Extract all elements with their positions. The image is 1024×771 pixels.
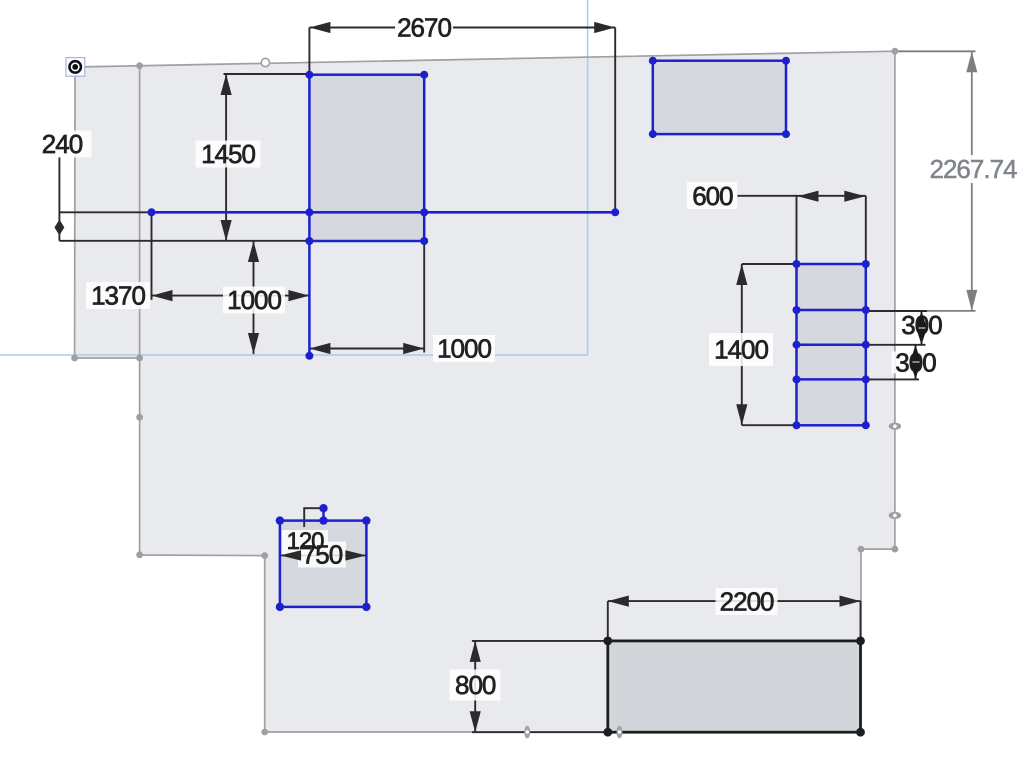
arrowhead 750 right — [345, 550, 366, 560]
dimension 2267.74 gray line — [971, 51, 973, 311]
svg-text:2670: 2670 — [397, 13, 451, 43]
dimension 300 lower line and extensions — [866, 345, 919, 380]
svg-text:600: 600 — [692, 181, 733, 211]
svg-text:1000: 1000 — [437, 334, 491, 364]
arrowhead 1450 top — [221, 74, 232, 95]
room outline polygon stroke — [75, 51, 895, 732]
dimension 1000 vertical line — [253, 241, 255, 354]
arrowhead 300 lower top (over text) — [910, 345, 920, 362]
right stack rectangle blue — [797, 264, 866, 425]
stub line blue below big rectangle — [308, 241, 311, 356]
dimension 1000 horizontal extension line — [423, 241, 425, 353]
top-right rectangle corners — [649, 57, 657, 65]
stack divider 3 — [797, 378, 866, 381]
blue vertex dots — [148, 57, 870, 611]
arrowhead 600 left — [798, 191, 819, 202]
label background 2200 — [716, 588, 778, 615]
arrowhead 1400 top — [736, 264, 747, 285]
label background 1450 — [196, 141, 261, 168]
rectangle fill big top-center — [309, 75, 424, 241]
svg-text:2200: 2200 — [720, 586, 774, 616]
label background 1000 vertical — [223, 287, 285, 314]
label background 240 — [41, 131, 92, 158]
rectangle fill right stack — [797, 264, 866, 425]
rectangle fill small square — [280, 521, 367, 607]
wall line endpoints and junctions — [148, 208, 156, 216]
pierce marker bottom edge right — [617, 726, 623, 739]
stack left vertices — [793, 260, 801, 268]
arrowhead 1400 bottom — [736, 404, 747, 425]
rectangle fill bottom black rect — [608, 641, 861, 732]
svg-text:2267.74: 2267.74 — [930, 154, 1018, 184]
arrowhead 1370 right — [288, 290, 309, 301]
svg-text:1370: 1370 — [91, 281, 145, 311]
svg-text:1400: 1400 — [714, 335, 768, 365]
arrowhead 300 upper bottom (over text) — [916, 329, 926, 345]
stub endpoint — [305, 352, 313, 360]
arrowhead 800 top — [470, 641, 481, 662]
label background 750 — [298, 542, 346, 568]
arrowhead 300 upper top (over text) — [916, 311, 926, 328]
dimension 1400 extension lines — [742, 264, 797, 425]
dimension 2200 line — [608, 600, 861, 602]
label background 2267.74 — [928, 155, 1018, 183]
label background 1400 — [709, 333, 773, 366]
label background 1000 horizontal — [433, 335, 495, 362]
arrowhead 240 top — [54, 220, 64, 228]
dimension 600 extension lines — [797, 196, 866, 263]
dimension 1000 horizontal line — [309, 348, 424, 350]
gray vertex dots — [71, 48, 898, 736]
arrowhead 2267.74 bottom gray — [966, 290, 977, 311]
dimension 300 upper line and extensions — [866, 311, 927, 345]
arrowhead 1000h right — [403, 343, 424, 354]
dimension 2200 extension lines — [608, 601, 861, 640]
light blue construction line vertical — [587, 0, 589, 355]
origin selection box — [66, 58, 85, 77]
dimension 1450 extension line — [224, 73, 310, 75]
big rectangle blue — [309, 75, 424, 241]
open midpoint circle on top edge — [261, 58, 269, 66]
stack right vertices — [862, 260, 870, 268]
origin bullseye icon — [69, 61, 81, 73]
arrowhead 2200 right — [840, 596, 861, 607]
svg-text:1450: 1450 — [201, 139, 255, 169]
dimension 600 line — [738, 195, 866, 197]
svg-text:240: 240 — [42, 129, 83, 159]
stack divider 2 — [797, 343, 866, 346]
label background 120 — [282, 530, 328, 554]
arrowhead 240 bottom — [54, 227, 64, 235]
pierce marker right edge lower — [889, 512, 901, 519]
label background 1370 — [86, 282, 150, 309]
dimension 2670 line — [309, 27, 615, 29]
arrowhead 750 left — [280, 550, 301, 560]
bottom black rectangle — [608, 641, 861, 732]
top-right rectangle blue — [653, 61, 786, 134]
arrowhead 800 bottom — [470, 711, 481, 732]
arrowhead 1370 left — [152, 290, 173, 301]
svg-text:750: 750 — [302, 540, 343, 570]
black rectangle corner dots — [603, 637, 865, 737]
arrowhead 600 right — [844, 191, 865, 202]
rectangle fill top-right — [653, 61, 786, 134]
small square blue — [280, 521, 367, 607]
room outline polygon fill — [75, 51, 895, 732]
big rectangle corners — [305, 71, 313, 79]
arrowhead 2267.74 top gray — [966, 51, 977, 72]
arrowhead 1000h left — [309, 343, 330, 354]
dimension 800 extension lines — [472, 641, 608, 732]
dimension 1370 line — [152, 295, 310, 297]
wall line blue — [152, 211, 616, 214]
arrowhead 2670 left — [309, 22, 330, 33]
dimension 120 leader bracket — [304, 508, 323, 527]
dimension 240 leader and extensions — [59, 157, 309, 241]
interior wall line vertical x=139.6 — [139, 66, 141, 358]
dimension 800 line — [474, 641, 476, 732]
label background 300 upper — [898, 314, 946, 336]
dimension 1450 line — [225, 74, 227, 241]
label background 300 lower — [892, 352, 940, 374]
arrowhead 1000v bottom — [248, 333, 259, 354]
pierce marker bottom edge left — [524, 726, 530, 739]
dimension 1400 line — [741, 264, 743, 425]
label background 2670 — [395, 14, 453, 41]
pierce marker right edge upper — [889, 423, 901, 430]
label background 800 — [450, 670, 501, 701]
small square anchor segment — [322, 508, 325, 520]
dimension 1370 extension line — [151, 212, 153, 299]
arrowhead 300 lower bottom (over text) — [910, 363, 920, 380]
arrowhead 2670 right — [594, 22, 615, 33]
dimension 750 line — [280, 554, 366, 556]
svg-text:1000: 1000 — [227, 285, 281, 315]
stack divider 1 — [797, 309, 866, 312]
label background 600 — [687, 182, 737, 209]
small square corners and points — [276, 516, 284, 524]
light blue construction line horizontal — [0, 354, 588, 356]
arrowhead 2200 left — [608, 596, 629, 607]
dimension 2670 extension lines — [309, 28, 615, 214]
arrowhead 1450 bottom — [221, 220, 232, 241]
arrowhead 1000v top — [248, 241, 259, 262]
dimension 2267.74 gray extension lines — [895, 51, 976, 311]
svg-text:800: 800 — [455, 670, 496, 700]
